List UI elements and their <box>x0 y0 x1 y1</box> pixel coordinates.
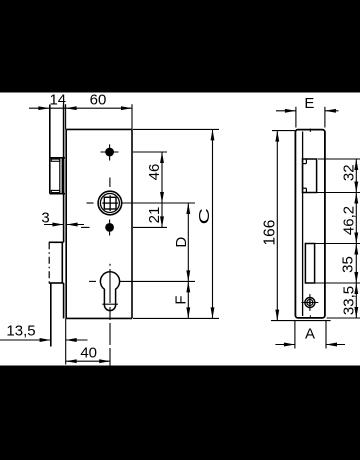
svg-text:46: 46 <box>146 164 163 181</box>
svg-text:3: 3 <box>41 210 49 227</box>
svg-text:166: 166 <box>261 220 278 246</box>
svg-text:46,2: 46,2 <box>340 206 357 235</box>
svg-text:D: D <box>173 237 190 248</box>
svg-text:40: 40 <box>80 345 97 362</box>
svg-text:14: 14 <box>49 92 66 109</box>
svg-text:35: 35 <box>339 256 356 273</box>
svg-text:13,5: 13,5 <box>6 323 35 340</box>
svg-text:A: A <box>305 326 315 343</box>
svg-text:21: 21 <box>146 207 163 224</box>
svg-text:E: E <box>304 95 314 112</box>
svg-text:C: C <box>197 208 213 224</box>
svg-text:60: 60 <box>90 92 107 109</box>
svg-text:32: 32 <box>340 164 357 181</box>
svg-text:F: F <box>172 295 189 304</box>
svg-text:33,5: 33,5 <box>340 286 357 315</box>
